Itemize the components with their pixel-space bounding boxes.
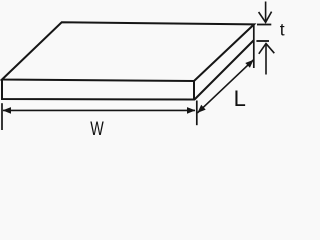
- L upper arrowhead: [245, 60, 253, 68]
- W dimension line: [3, 109, 195, 111]
- plate right side bottom edge: [195, 40, 255, 100]
- plate top face: [2, 22, 254, 81]
- W left arrowhead: [3, 107, 11, 114]
- plate back-right vertical edge + L extension line: [253, 24, 255, 68]
- W dimension left extension line: [1, 103, 3, 130]
- t dimension top tick: [257, 24, 271, 26]
- svg-text:L: L: [234, 86, 246, 111]
- L dimension line: [197, 60, 253, 113]
- L lower arrowhead: [197, 105, 205, 113]
- W / L shared right extension line: [196, 101, 198, 126]
- t dimension up arrow: [259, 44, 275, 75]
- W right arrowhead: [187, 107, 195, 114]
- t dimension down arrow: [259, 2, 272, 23]
- t dimension bottom tick: [256, 40, 269, 42]
- svg-text:W: W: [90, 119, 104, 140]
- svg-text:t: t: [280, 20, 285, 40]
- plate front face: [2, 80, 194, 100]
